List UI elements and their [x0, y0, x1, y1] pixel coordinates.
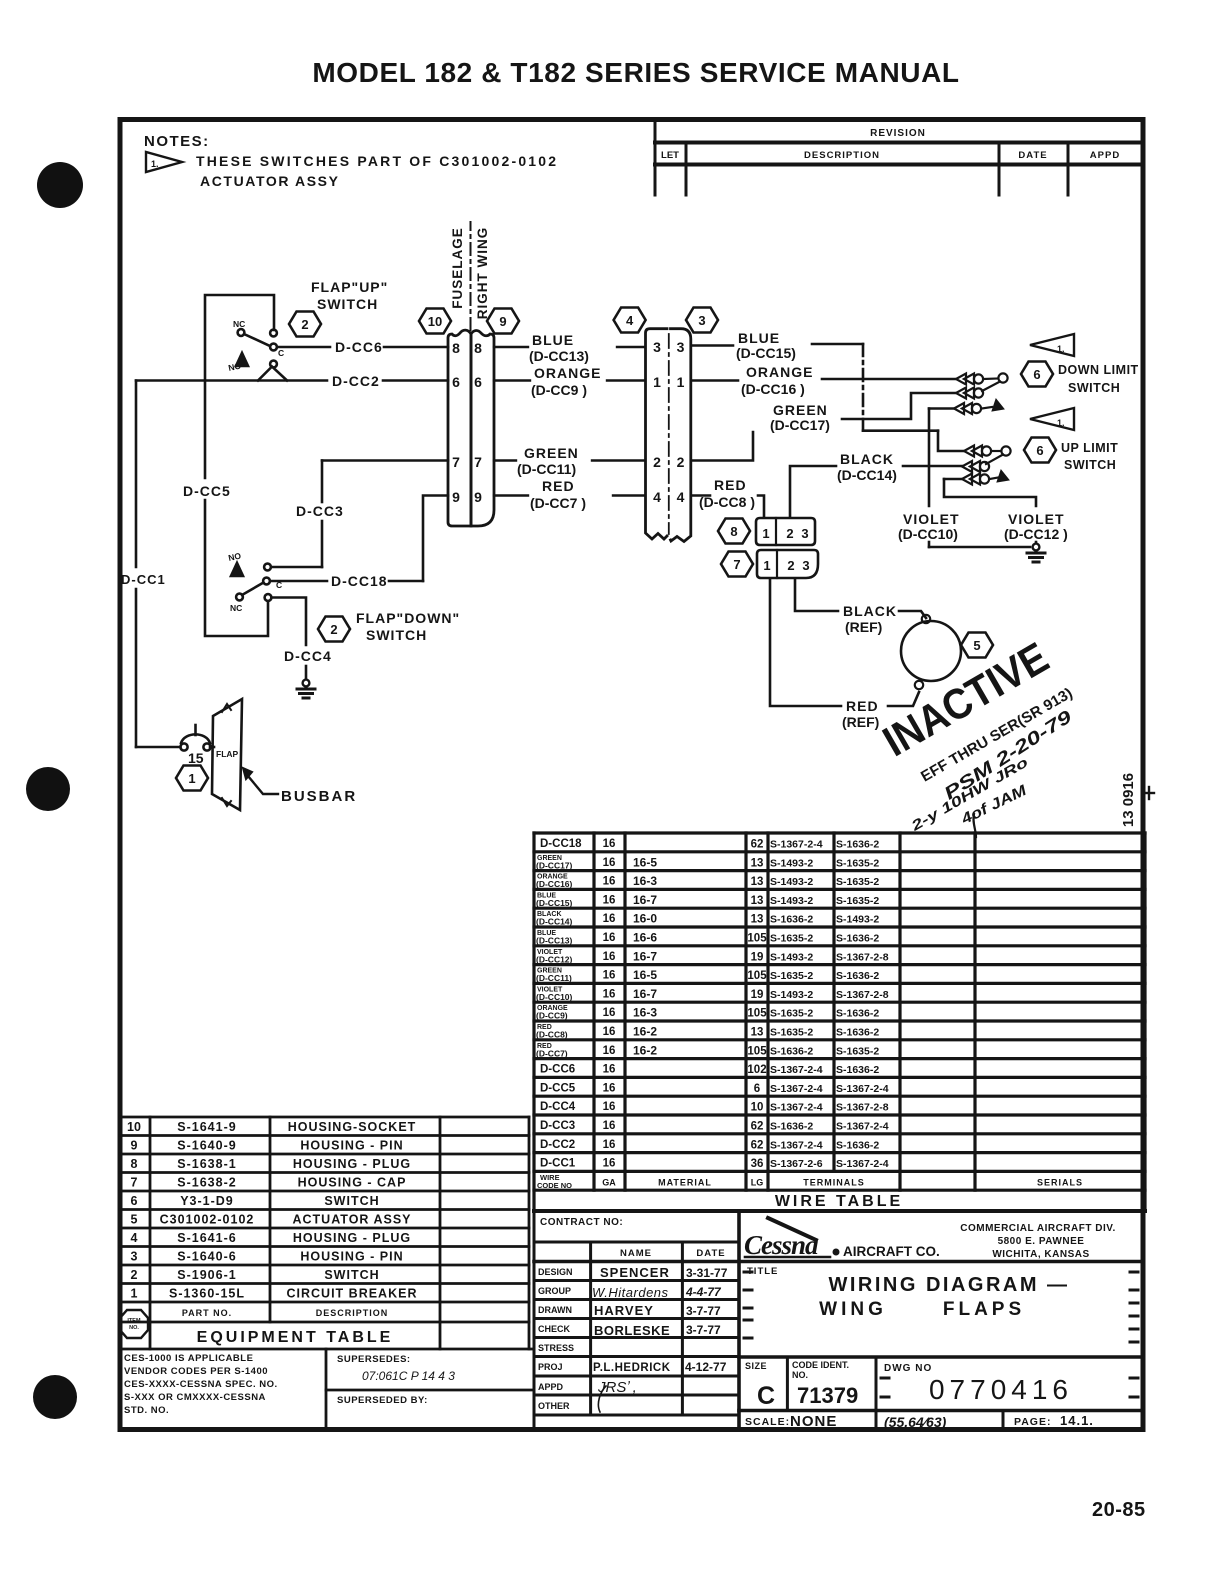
svg-text:S-1636-2: S-1636-2 [836, 1139, 879, 1151]
svg-text:4-12-77: 4-12-77 [685, 1360, 727, 1374]
connector 9 housing [471, 330, 494, 526]
connector 4 housing [646, 329, 668, 539]
svg-text:S-1906-1: S-1906-1 [177, 1268, 236, 1282]
svg-text:5: 5 [973, 638, 980, 653]
svg-text:3-7-77: 3-7-77 [686, 1323, 721, 1337]
hexagon callout 2 (flap down) [318, 617, 350, 642]
wire table banner line [534, 1209, 1145, 1213]
svg-text:14.1.: 14.1. [1060, 1413, 1094, 1428]
svg-text:(D-CC10): (D-CC10) [536, 992, 573, 1002]
wire D-CC18 [270, 580, 327, 583]
svg-text:(D-CC16 ): (D-CC16 ) [741, 381, 805, 397]
svg-text:6: 6 [474, 374, 482, 390]
wire red d-cc8 bracket into connector 8 [758, 496, 764, 518]
svg-text:(D-CC11): (D-CC11) [517, 461, 576, 477]
svg-text:FLAP: FLAP [216, 749, 239, 759]
svg-text:LET: LET [661, 150, 679, 161]
wire red ref right to motor [888, 692, 919, 706]
svg-text:(D-CC11): (D-CC11) [536, 973, 572, 983]
wire table row line [534, 925, 1145, 928]
svg-text:HOUSING - PLUG: HOUSING - PLUG [293, 1157, 411, 1171]
svg-text:(D-CC12): (D-CC12) [536, 954, 573, 964]
svg-text:NO.: NO. [792, 1370, 808, 1380]
wire table header line [534, 1189, 1145, 1192]
svg-text:2: 2 [653, 454, 661, 470]
svg-text:D-CC6: D-CC6 [540, 1064, 575, 1076]
svg-text:1: 1 [677, 374, 685, 390]
svg-text:NOTES:: NOTES: [144, 133, 210, 150]
svg-text:SWITCH: SWITCH [366, 627, 427, 643]
svg-text:S-1635-2: S-1635-2 [836, 1045, 879, 1057]
flap up switch contacts [238, 329, 245, 336]
svg-text:CES-XXXX-CESSNA SPEC. NO.: CES-XXXX-CESSNA SPEC. NO. [124, 1379, 278, 1390]
wire orange d-cc9 [494, 379, 530, 381]
note flag triangle (down limit) [1030, 334, 1074, 356]
wire D-CC3 vertical [321, 461, 324, 503]
wire down limit NO row [929, 407, 954, 410]
svg-text:8: 8 [131, 1157, 138, 1171]
svg-text:(55.64⁄63): (55.64⁄63) [884, 1414, 947, 1430]
svg-text:S-1367-2-4: S-1367-2-4 [836, 1121, 889, 1133]
punch hole bottom [33, 1375, 77, 1419]
hexagon callout 6 (up limit) [1024, 438, 1056, 463]
svg-text:7: 7 [474, 454, 482, 470]
svg-text:S-1636-2: S-1636-2 [836, 1064, 879, 1076]
equipment table row line [120, 1190, 529, 1193]
wire table row line [534, 888, 1145, 891]
svg-text:S-1640-9: S-1640-9 [177, 1139, 236, 1153]
svg-text:105: 105 [747, 970, 767, 982]
svg-text:SPENCER: SPENCER [600, 1265, 670, 1280]
svg-text:C: C [757, 1382, 775, 1410]
svg-text:S-1641-9: S-1641-9 [177, 1120, 236, 1134]
wire black ref right to motor [899, 611, 926, 618]
svg-text:62: 62 [751, 1121, 764, 1133]
svg-text:Y3-1-D9: Y3-1-D9 [180, 1194, 234, 1208]
busbar tick bottom [222, 798, 231, 806]
svg-text:W.Hitardens: W.Hitardens [592, 1285, 669, 1300]
svg-text:9: 9 [499, 314, 506, 329]
svg-text:BLACK: BLACK [840, 451, 894, 467]
equipment table row line [120, 1301, 529, 1304]
svg-text:C301002-0102: C301002-0102 [160, 1213, 255, 1227]
wire centerline junction horizontal [863, 429, 938, 432]
down limit switch contact NO [954, 403, 981, 414]
svg-text:2: 2 [301, 317, 308, 332]
svg-text:RED: RED [542, 478, 575, 494]
svg-text:WICHITA, KANSAS: WICHITA, KANSAS [992, 1249, 1089, 1260]
svg-text:SWITCH: SWITCH [324, 1268, 379, 1282]
busbar tick top [222, 704, 231, 712]
svg-text:S-1367-2-4: S-1367-2-4 [770, 839, 823, 851]
svg-text:SWITCH: SWITCH [317, 296, 378, 312]
svg-text:S-1640-6: S-1640-6 [177, 1250, 236, 1264]
wire table row line [534, 1076, 1145, 1079]
svg-text:7: 7 [452, 454, 460, 470]
svg-text:S-XXX OR CMXXXX-CESSNA: S-XXX OR CMXXXX-CESSNA [124, 1392, 266, 1403]
svg-text:FLAP"DOWN": FLAP"DOWN" [356, 610, 460, 626]
wire D-CC4 [272, 598, 307, 646]
svg-text:SCALE:: SCALE: [745, 1416, 790, 1428]
svg-text:3-31-77: 3-31-77 [686, 1266, 728, 1280]
svg-text:16-5: 16-5 [633, 855, 657, 869]
revision table [655, 122, 1141, 195]
cessna box / title box [739, 1355, 1141, 1359]
svg-text:NC: NC [233, 319, 245, 329]
svg-text:16-2: 16-2 [633, 1043, 657, 1057]
svg-text:D-CC18: D-CC18 [331, 573, 388, 589]
svg-text:COMMERCIAL AIRCRAFT DIV.: COMMERCIAL AIRCRAFT DIV. [960, 1223, 1116, 1234]
svg-text:S-1367-2-4: S-1367-2-4 [770, 1102, 823, 1114]
wire red ref left [770, 580, 841, 706]
svg-text:16-7: 16-7 [633, 987, 657, 1001]
stamp signature [958, 782, 1030, 829]
svg-text:DESCRIPTION: DESCRIPTION [804, 150, 880, 161]
stamp line EFF THRU SER(SR 913) [918, 685, 1075, 786]
svg-text:VIOLET: VIOLET [1008, 511, 1065, 527]
svg-text:20-85: 20-85 [1092, 1499, 1146, 1521]
equipment table row line [120, 1153, 529, 1156]
down limit switch wiper [982, 382, 1000, 392]
svg-text:16: 16 [603, 1026, 616, 1038]
svg-text:105: 105 [747, 1008, 767, 1020]
svg-text:CHECK: CHECK [538, 1324, 571, 1334]
svg-text:2: 2 [330, 622, 337, 637]
svg-text:(D-CC14): (D-CC14) [536, 917, 573, 927]
svg-text:(D-CC8 ): (D-CC8 ) [699, 494, 755, 510]
svg-text:D-CC2: D-CC2 [332, 373, 380, 389]
svg-text:DESCRIPTION: DESCRIPTION [316, 1308, 389, 1318]
svg-text:HOUSING - PLUG: HOUSING - PLUG [293, 1231, 411, 1245]
svg-text:NAME: NAME [620, 1248, 652, 1259]
svg-text:ORANGE: ORANGE [534, 365, 601, 381]
svg-text:16: 16 [603, 876, 616, 888]
motor item 5 [901, 621, 961, 681]
svg-text:8: 8 [452, 340, 460, 356]
svg-text:S-1493-2: S-1493-2 [770, 989, 813, 1001]
svg-text:4: 4 [677, 489, 685, 505]
svg-text:2: 2 [677, 454, 685, 470]
svg-text:6: 6 [1033, 367, 1040, 382]
wire D-CC2 horizontal [136, 379, 327, 382]
up limit switch contact NC1 [964, 446, 991, 457]
svg-text:FLAPS: FLAPS [943, 1299, 1025, 1320]
svg-text:P.L.HEDRICK: P.L.HEDRICK [593, 1362, 671, 1374]
svg-text:105: 105 [747, 933, 767, 945]
svg-text:3-7-77: 3-7-77 [686, 1304, 721, 1318]
svg-text:S-1635-2: S-1635-2 [770, 933, 813, 945]
svg-text:16: 16 [603, 988, 616, 1000]
wire green d-cc17 from pin2 [691, 432, 753, 461]
svg-text:8: 8 [474, 340, 482, 356]
svg-text:(D-CC7 ): (D-CC7 ) [530, 495, 586, 511]
down limit switch arm circle [998, 373, 1007, 382]
svg-text:S-1367-2-8: S-1367-2-8 [836, 989, 889, 1001]
svg-text:VENDOR CODES PER S-1400: VENDOR CODES PER S-1400 [124, 1366, 268, 1377]
svg-text:6: 6 [452, 374, 460, 390]
svg-text:3: 3 [131, 1250, 138, 1264]
svg-text:WING: WING [819, 1299, 887, 1320]
flap up switch NO tent to D-CC2 [258, 367, 287, 381]
svg-text:105: 105 [747, 1045, 767, 1057]
svg-text:S-1493-2: S-1493-2 [770, 951, 813, 963]
hexagon callout 5 [961, 633, 993, 658]
svg-text:STRESS: STRESS [538, 1343, 574, 1353]
svg-text:APPD: APPD [538, 1382, 564, 1392]
svg-text:10: 10 [428, 314, 442, 329]
svg-text:16: 16 [603, 1101, 616, 1113]
down limit switch contact NC2 [956, 388, 983, 399]
wire table row line [534, 1132, 1145, 1135]
svg-text:13: 13 [751, 857, 764, 869]
svg-text:7: 7 [733, 557, 740, 572]
wire violet d-cc10 bottom [929, 546, 1030, 549]
svg-text:3: 3 [653, 339, 661, 355]
svg-text:(D-CC16): (D-CC16) [536, 879, 573, 889]
svg-text:4: 4 [131, 1231, 138, 1245]
wire table row line [534, 869, 1145, 872]
svg-text:16-3: 16-3 [633, 1006, 657, 1020]
svg-text:C: C [276, 580, 282, 590]
wire table row line [534, 963, 1145, 966]
svg-text:(D-CC7): (D-CC7) [536, 1048, 568, 1058]
svg-text:MATERIAL: MATERIAL [658, 1177, 712, 1187]
svg-text:(D-CC13): (D-CC13) [536, 936, 573, 946]
wire black ref left [795, 580, 838, 611]
svg-text:S-1367-2-4: S-1367-2-4 [836, 1158, 889, 1170]
up limit switch arm circle [1001, 446, 1010, 455]
svg-text:S-1367-2-4: S-1367-2-4 [770, 1139, 823, 1151]
svg-text:S-1367-2-8: S-1367-2-8 [836, 951, 889, 963]
svg-text:1.: 1. [151, 159, 159, 169]
wire table row line [534, 982, 1145, 985]
svg-text:S-1636-2: S-1636-2 [770, 914, 813, 926]
svg-text:S-1636-2: S-1636-2 [836, 839, 879, 851]
svg-text:D-CC6: D-CC6 [335, 339, 383, 355]
note 1 flag triangle [146, 152, 182, 172]
wire busbar feed [210, 746, 214, 749]
svg-text:BUSBAR: BUSBAR [281, 788, 357, 805]
svg-text:D-CC5: D-CC5 [540, 1082, 576, 1094]
svg-text:D-CC4: D-CC4 [540, 1101, 576, 1113]
svg-text:MODEL 182 & T182 SERIES SERVIC: MODEL 182 & T182 SERIES SERVICE MANUAL [312, 57, 959, 88]
equipment table row line [120, 1208, 529, 1211]
svg-text:S-1635-2: S-1635-2 [836, 876, 879, 888]
svg-text:TERMINALS: TERMINALS [803, 1177, 865, 1187]
svg-text:CONTRACT NO:: CONTRACT NO: [540, 1217, 623, 1228]
wire green d-cc17 to down limit [842, 393, 956, 419]
wire violet d-cc12 [944, 479, 1036, 506]
svg-text:6: 6 [754, 1083, 760, 1095]
svg-text:16: 16 [603, 1082, 616, 1094]
svg-text:0770416: 0770416 [929, 1374, 1073, 1405]
svg-text:3: 3 [801, 526, 808, 541]
svg-text:(D-CC10): (D-CC10) [898, 526, 958, 542]
svg-text:D-CC3: D-CC3 [296, 503, 344, 519]
hexagon callout 1 [176, 766, 208, 791]
svg-text:1.: 1. [1057, 344, 1065, 354]
svg-text:RED: RED [714, 477, 747, 493]
wire table row line [534, 1038, 1145, 1041]
flap down switch NO triangle [231, 563, 243, 576]
svg-text:HOUSING-SOCKET: HOUSING-SOCKET [288, 1120, 417, 1134]
equipment table row line [120, 1171, 529, 1174]
svg-text:71379: 71379 [797, 1383, 858, 1408]
title block outer lines [533, 1211, 536, 1428]
svg-text:4-4-77: 4-4-77 [685, 1285, 722, 1299]
svg-text:13: 13 [751, 895, 764, 907]
svg-text:WIRING DIAGRAM —: WIRING DIAGRAM — [828, 1274, 1069, 1296]
wire to up limit common [938, 431, 964, 451]
svg-text:(D-CC15): (D-CC15) [536, 898, 573, 908]
svg-text:16: 16 [603, 857, 616, 869]
equipment table row line [120, 1264, 529, 1267]
wire table row line [534, 1113, 1145, 1116]
svg-text:13: 13 [751, 1027, 764, 1039]
svg-text:D-CC2: D-CC2 [540, 1139, 575, 1151]
svg-text:16: 16 [603, 970, 616, 982]
svg-text:(D-CC12 ): (D-CC12 ) [1004, 526, 1068, 542]
svg-text:S-1635-2: S-1635-2 [770, 1027, 813, 1039]
svg-text:13: 13 [751, 876, 764, 888]
svg-text:S-1367-2-4: S-1367-2-4 [836, 1083, 889, 1095]
wire blue d-cc15 [691, 344, 733, 347]
border frame [120, 120, 1143, 1430]
flap down switch contacts [264, 564, 271, 571]
svg-text:NO: NO [227, 550, 242, 563]
svg-text:THESE SWITCHES PART OF C301002: THESE SWITCHES PART OF C301002-0102 [196, 153, 558, 169]
punch hole top [37, 162, 83, 208]
svg-text:DWG NO: DWG NO [884, 1363, 932, 1374]
svg-text:(D-CC17): (D-CC17) [770, 417, 830, 433]
svg-text:16-5: 16-5 [633, 968, 657, 982]
svg-text:NC: NC [230, 603, 242, 613]
vendor codes note box [326, 1349, 534, 1428]
ground symbol D-CC12 [1027, 544, 1045, 562]
wire green d-cc11 [494, 459, 516, 461]
svg-text:SWITCH: SWITCH [324, 1194, 379, 1208]
INACTIVE stamp [875, 634, 1057, 767]
svg-text:ITEM: ITEM [127, 1318, 141, 1324]
svg-text:S-1636-2: S-1636-2 [836, 933, 879, 945]
svg-text:DOWN LIMIT: DOWN LIMIT [1058, 363, 1139, 377]
svg-text:(REF): (REF) [845, 619, 882, 635]
svg-text:S-1493-2: S-1493-2 [770, 876, 813, 888]
svg-text:ORANGE: ORANGE [746, 364, 813, 380]
svg-text:S-1636-2: S-1636-2 [836, 1008, 879, 1020]
wire: flap up switch top loop [205, 295, 274, 478]
equipment table row line [120, 1116, 529, 1119]
svg-text:16: 16 [603, 1158, 616, 1170]
svg-text:16: 16 [603, 1045, 616, 1057]
connector 7 housing (1 2 3) [757, 550, 818, 578]
svg-text:UP LIMIT: UP LIMIT [1061, 441, 1118, 455]
svg-text:OTHER: OTHER [538, 1401, 570, 1411]
hexagon callout 9 [487, 309, 519, 334]
svg-text:S-1360-15L: S-1360-15L [169, 1287, 245, 1301]
svg-text:1.: 1. [1057, 418, 1065, 428]
svg-text:16: 16 [603, 894, 616, 906]
registration dashes left of title [744, 1272, 1138, 1397]
svg-text:FLAP"UP": FLAP"UP" [311, 279, 388, 295]
svg-text:S-1636-2: S-1636-2 [770, 1045, 813, 1057]
svg-text:LG: LG [751, 1177, 764, 1187]
svg-text:ACTUATOR ASSY: ACTUATOR ASSY [292, 1213, 411, 1227]
flap up switch wiper [244, 334, 270, 346]
hexagon callout 8 [718, 519, 750, 544]
wire orange d-cc16 [691, 379, 738, 382]
svg-text:(REF): (REF) [842, 714, 879, 730]
circuit breaker item 1 [180, 725, 210, 751]
punch hole middle [26, 767, 70, 811]
svg-text:S-1641-6: S-1641-6 [177, 1231, 236, 1245]
wire table row line [534, 1095, 1145, 1098]
svg-text:SWITCH: SWITCH [1068, 381, 1120, 395]
svg-text:16-7: 16-7 [633, 893, 657, 907]
svg-text:DATE: DATE [696, 1248, 725, 1259]
svg-text:6: 6 [131, 1194, 138, 1208]
svg-text:S-1635-2: S-1635-2 [770, 1008, 813, 1020]
svg-text:10: 10 [127, 1120, 141, 1134]
ground symbol D-CC4 [297, 680, 315, 698]
wire table row line [534, 1170, 1145, 1173]
svg-text:BLUE: BLUE [532, 332, 574, 348]
svg-text:ACTUATOR ASSY: ACTUATOR ASSY [200, 173, 340, 189]
wire table row line [534, 1151, 1145, 1154]
svg-text:S-1635-2: S-1635-2 [836, 857, 879, 869]
svg-text:D-CC1: D-CC1 [540, 1158, 576, 1170]
svg-text:7: 7 [131, 1176, 138, 1190]
svg-text:16: 16 [603, 951, 616, 963]
connector separation dashed centerline [470, 222, 472, 330]
wire red d-cc8 stub [691, 494, 710, 497]
svg-text:S-1636-2: S-1636-2 [836, 970, 879, 982]
svg-text:S-1636-2: S-1636-2 [770, 1121, 813, 1133]
svg-text:16: 16 [603, 932, 616, 944]
svg-text:NONE: NONE [790, 1413, 837, 1430]
svg-text:HOUSING - PIN: HOUSING - PIN [300, 1139, 403, 1153]
wire D-CC3 to flap down NO [271, 566, 322, 569]
svg-text:PROJ: PROJ [538, 1362, 563, 1372]
svg-text:DRAWN: DRAWN [538, 1305, 572, 1315]
svg-text:62: 62 [751, 1139, 764, 1151]
svg-text:19: 19 [751, 989, 764, 1001]
svg-text:RIGHT WING: RIGHT WING [475, 227, 490, 320]
svg-text:10: 10 [751, 1102, 764, 1114]
equipment table row line [120, 1282, 529, 1285]
wire D-CC1 vertical [135, 381, 138, 568]
svg-text:CES-1000 IS APPLICABLE: CES-1000 IS APPLICABLE [124, 1353, 253, 1364]
connector 3 housing [671, 329, 691, 542]
svg-text:REVISION: REVISION [870, 128, 926, 139]
svg-text:1: 1 [131, 1287, 138, 1301]
svg-text:2: 2 [131, 1268, 138, 1282]
wire table row line [534, 850, 1145, 853]
svg-text:16-0: 16-0 [633, 912, 657, 926]
svg-text:16-2: 16-2 [633, 1025, 657, 1039]
wire D-CC1 to breaker [136, 746, 181, 749]
svg-text:8: 8 [730, 524, 737, 539]
svg-text:SIZE: SIZE [745, 1361, 767, 1371]
svg-text:(D-CC8): (D-CC8) [536, 1030, 568, 1040]
svg-text:S-1636-2: S-1636-2 [836, 1027, 879, 1039]
svg-text:3: 3 [677, 339, 685, 355]
svg-text:NO.: NO. [129, 1325, 139, 1331]
busbar leader arrow [248, 776, 278, 794]
svg-text:D-CC1: D-CC1 [121, 572, 166, 587]
svg-text:16: 16 [603, 1120, 616, 1132]
svg-text:9: 9 [131, 1139, 138, 1153]
